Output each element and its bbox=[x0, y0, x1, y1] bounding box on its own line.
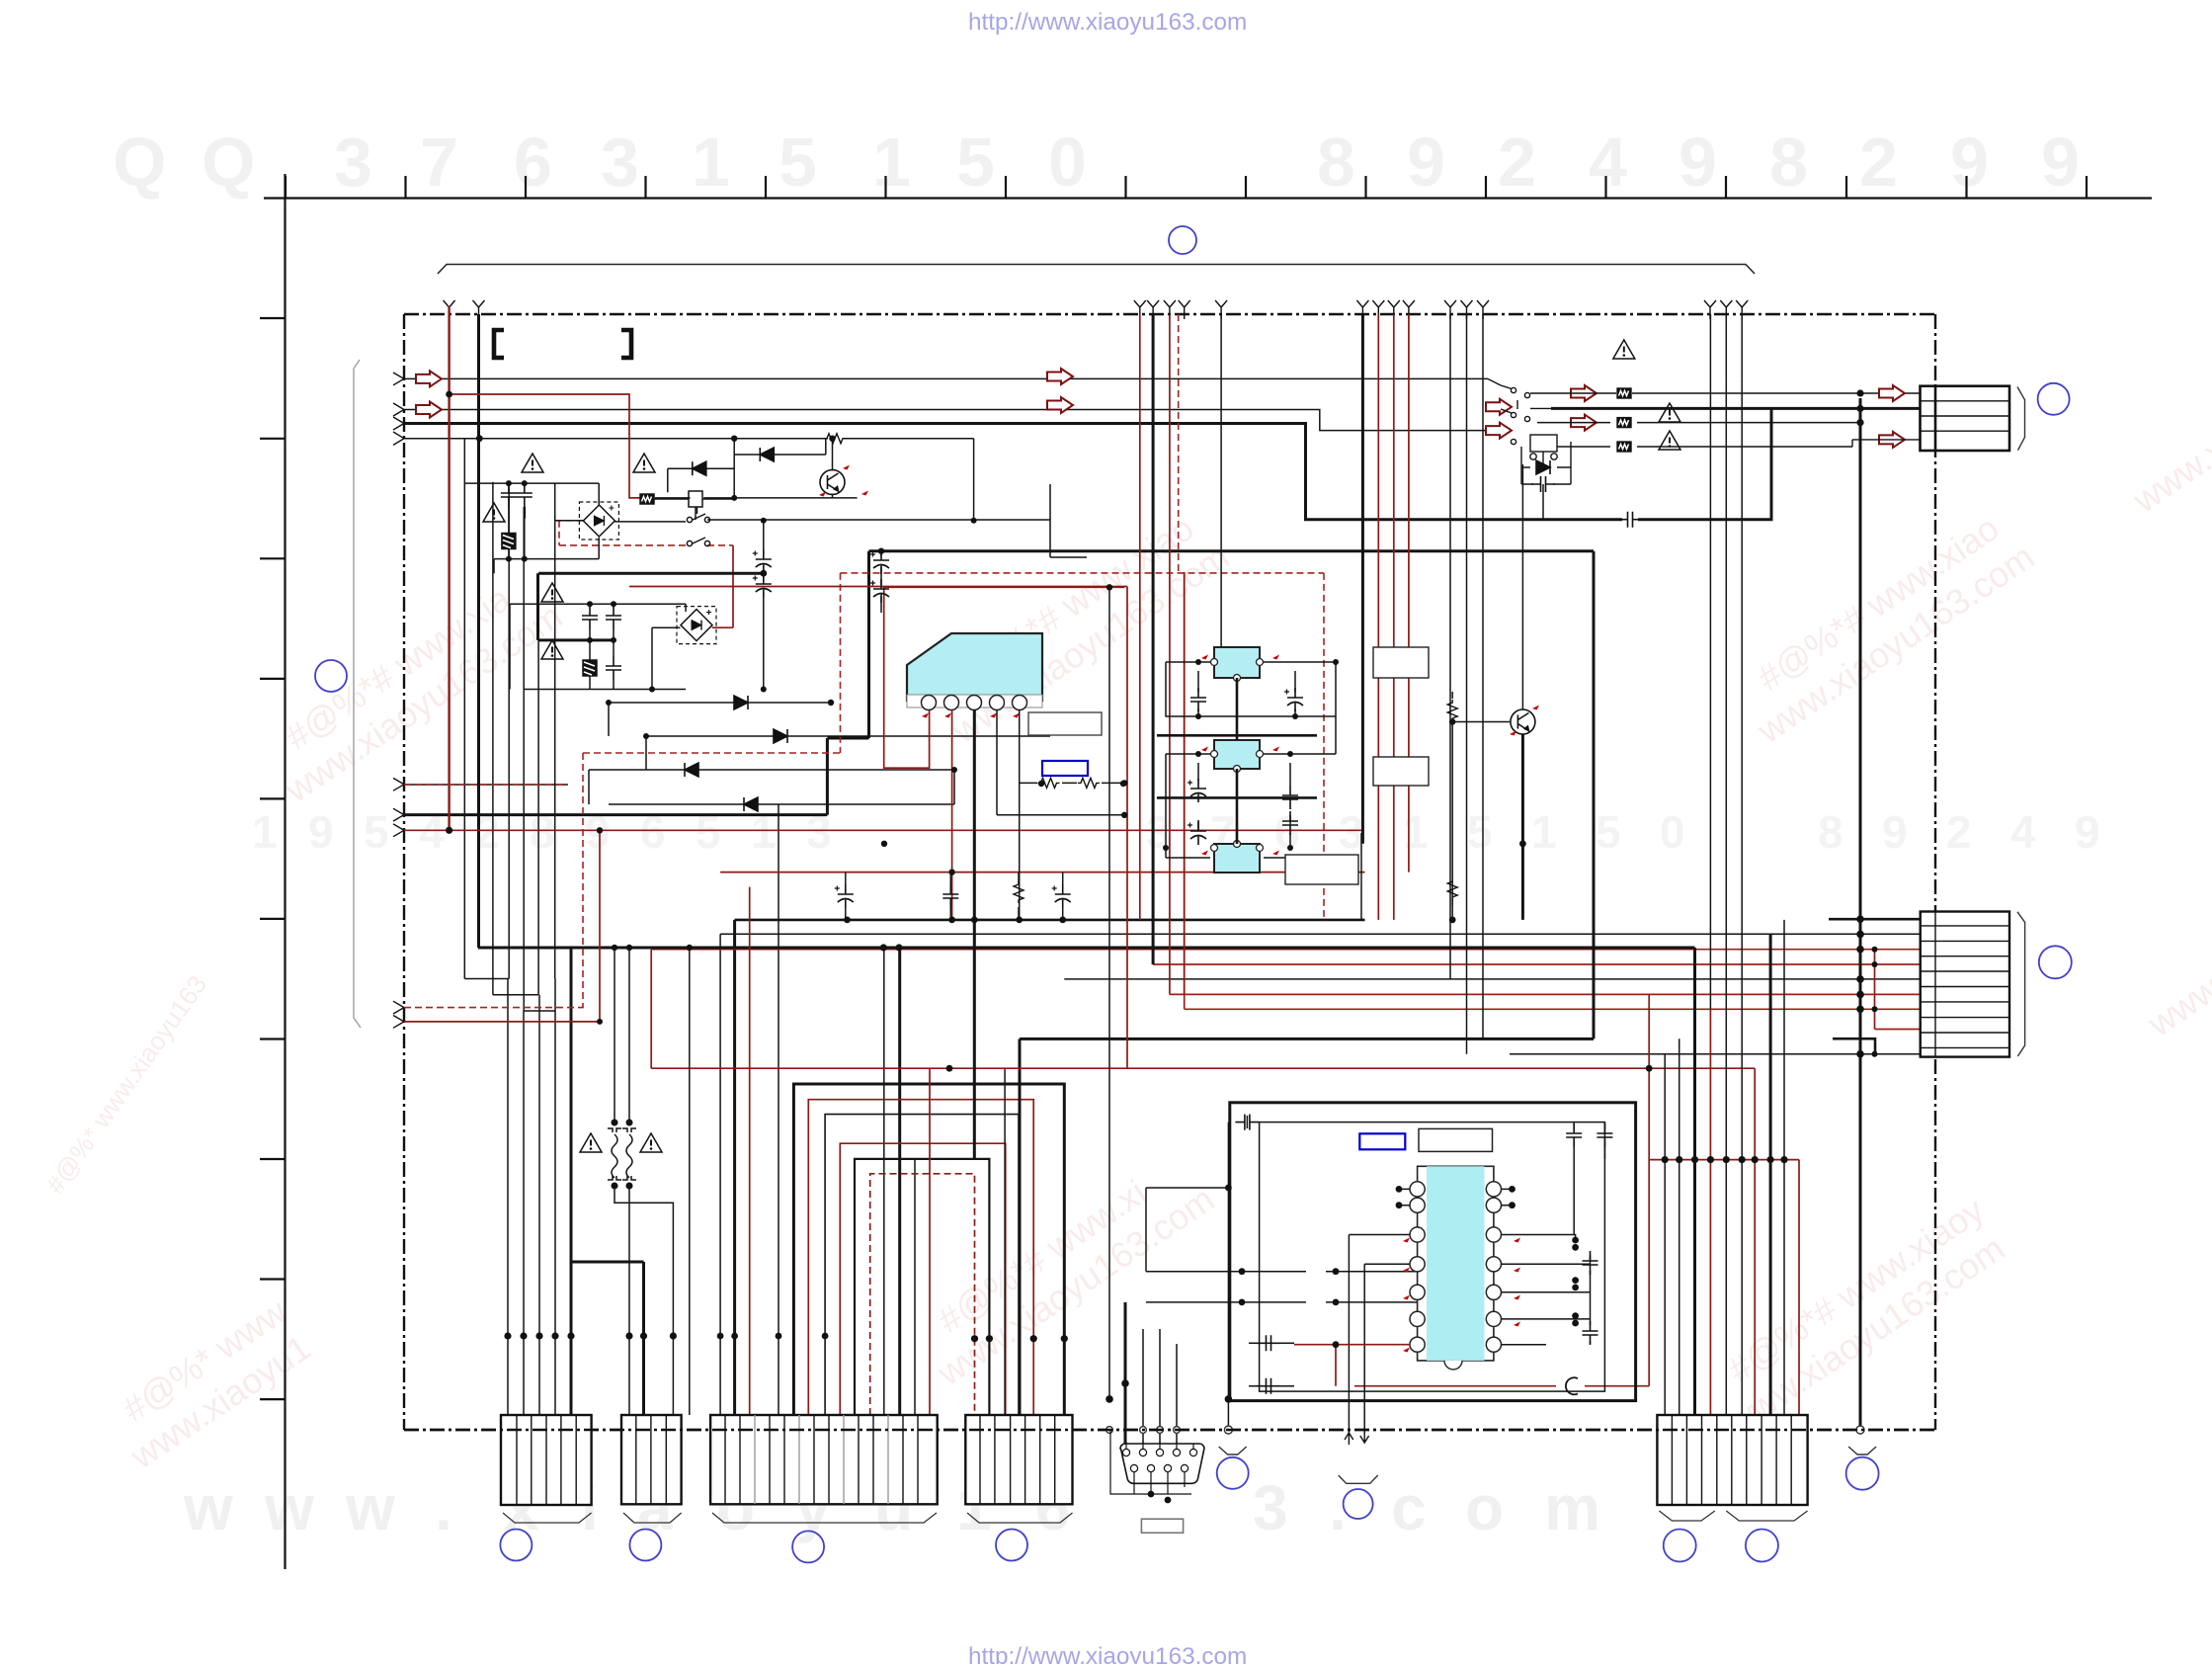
power entry subcircuit top-left bbox=[464, 483, 764, 573]
wire bus: long thin black horizontals top bbox=[404, 378, 1920, 520]
enclosure label box bbox=[1419, 1128, 1493, 1151]
svg-text:3: 3 bbox=[1339, 806, 1364, 858]
svg-text:5: 5 bbox=[1467, 806, 1493, 858]
dash-dot border overlay through connectors bbox=[404, 1429, 1935, 1431]
connector CN-R2 right edge lower bbox=[1921, 912, 2025, 1057]
D-sub label box bbox=[1141, 1519, 1183, 1533]
diode ladder center-left bbox=[589, 696, 1050, 811]
bridge rectifier 2 bbox=[677, 607, 716, 644]
top coverage bracket bbox=[354, 265, 1755, 1029]
wire bus: long red lines bbox=[404, 306, 1875, 1415]
svg-text:0: 0 bbox=[1048, 124, 1087, 201]
red wire inside enclosure bbox=[1294, 1345, 1410, 1386]
arrow markers dark red bbox=[416, 369, 1905, 448]
svg-text:o: o bbox=[1465, 1472, 1504, 1543]
DIP stub wires and dots bbox=[1146, 1115, 1612, 1394]
svg-text:2: 2 bbox=[1859, 124, 1898, 201]
svg-text:9: 9 bbox=[308, 806, 334, 858]
IC1 label box bbox=[1028, 712, 1102, 735]
svg-text:9: 9 bbox=[1407, 124, 1445, 201]
svg-text:1: 1 bbox=[1403, 806, 1429, 858]
wire bbox=[689, 948, 691, 1415]
svg-text:http://www.xiaoyu163.com: http://www.xiaoyu163.com bbox=[968, 9, 1247, 36]
connector CN-E bottom right pair bbox=[1657, 1415, 1807, 1521]
ruler top ticks bbox=[286, 176, 2087, 198]
board outline dash-dot border bbox=[404, 314, 1935, 1430]
ruler horizontal line bbox=[264, 197, 2152, 199]
wire bus: bottom-center enclosure feeders bbox=[1109, 587, 1418, 1444]
bridge rectifier 1 bbox=[579, 502, 618, 540]
wire bus: right side vertical bus to bottom-right connector bbox=[1665, 378, 1860, 1430]
ruler vertical line bbox=[284, 174, 286, 1569]
svg-text:m: m bbox=[1544, 1472, 1600, 1543]
enclosure blue value box bbox=[1359, 1133, 1405, 1149]
open junction circles bbox=[1106, 1426, 1864, 1434]
resistor pair under IC1 bbox=[1020, 778, 1125, 788]
svg-text:2: 2 bbox=[1946, 806, 1972, 858]
diode bbox=[760, 448, 774, 461]
regulator small IC 3 bbox=[1201, 841, 1279, 874]
transistor Q2 bbox=[1511, 709, 1535, 734]
svg-text:3: 3 bbox=[601, 124, 639, 201]
svg-text:2: 2 bbox=[1498, 124, 1536, 201]
power subcircuit 2 bbox=[510, 573, 686, 689]
connector CN-R1 right edge top bbox=[1921, 386, 2025, 451]
svg-text:w: w bbox=[183, 1472, 233, 1543]
up-down arrows below dash-dot bbox=[1345, 1431, 1369, 1445]
switch contacts near top-right bbox=[1488, 378, 1920, 709]
series capacitors x=774 bbox=[753, 521, 889, 690]
transistor Q1 bbox=[820, 470, 845, 495]
connector CN-D bottom bbox=[965, 1415, 1072, 1523]
svg-text:1: 1 bbox=[872, 124, 911, 201]
regulator small IC 1 bbox=[1201, 647, 1279, 682]
svg-text:8: 8 bbox=[1769, 124, 1808, 201]
svg-text:8: 8 bbox=[1818, 806, 1843, 858]
vee marks above blue circles bbox=[1219, 1447, 1876, 1483]
relay and control row top bbox=[640, 484, 1087, 557]
svg-text:1: 1 bbox=[1531, 806, 1557, 858]
svg-text:7: 7 bbox=[420, 124, 458, 201]
regulator wiring bbox=[1157, 662, 1336, 858]
svg-text:Q: Q bbox=[113, 124, 166, 201]
wire bus: thick black top lines bbox=[404, 408, 1920, 814]
regulator area thin border bbox=[1360, 833, 1362, 920]
svg-text:1: 1 bbox=[692, 124, 730, 201]
wire bus: left-center thin verticals to connector C bbox=[720, 804, 915, 1415]
svg-text:3: 3 bbox=[334, 124, 372, 201]
wire bus: staircase mid-left bbox=[464, 948, 643, 1415]
svg-text:w: w bbox=[345, 1472, 395, 1543]
wire bus: top-left board entry chevrons bbox=[393, 373, 404, 1028]
wire bus: red dashed nets bbox=[404, 314, 1324, 1008]
DIP IC body bbox=[1403, 1166, 1520, 1370]
wire bus: center-band horizontals to right connector bbox=[651, 572, 1920, 1054]
IC1 blue value box bbox=[1042, 761, 1088, 776]
capacitor row in thick top line bbox=[1618, 512, 1642, 528]
wire bus: nested U black bbox=[793, 1084, 1064, 1415]
C symbol bbox=[1566, 1377, 1578, 1394]
connector CN-C bottom wide bbox=[710, 1415, 938, 1523]
left tall thin bracket bbox=[354, 360, 361, 1028]
regulator small IC 2 bbox=[1201, 740, 1279, 773]
svg-text:6: 6 bbox=[1274, 806, 1300, 858]
big cyan hybrid IC bbox=[884, 587, 1124, 1159]
ruler left ticks bbox=[260, 318, 285, 1399]
svg-text:6: 6 bbox=[514, 124, 552, 201]
warning triangle bbox=[483, 340, 1680, 1152]
svg-text:5: 5 bbox=[364, 806, 389, 858]
connector CN-B bottom bbox=[621, 1415, 682, 1523]
caps on band lines bbox=[835, 873, 1071, 920]
svg-text:5: 5 bbox=[956, 124, 995, 201]
bracket glyphs bbox=[494, 330, 631, 358]
svg-text:4: 4 bbox=[1589, 124, 1627, 201]
svg-text:9: 9 bbox=[1950, 124, 1989, 201]
svg-text:9: 9 bbox=[1882, 806, 1908, 858]
wire bus: big thick black trunks center bbox=[478, 551, 1695, 1415]
RULER bbox=[260, 174, 2152, 1569]
svg-text:w: w bbox=[264, 1472, 314, 1543]
svg-text:.: . bbox=[435, 1472, 452, 1543]
svg-text:5: 5 bbox=[1596, 806, 1621, 858]
svg-text:9: 9 bbox=[2041, 124, 2080, 201]
blue reference circles bbox=[315, 226, 2072, 1562]
DIP IC enclosure bbox=[1230, 1103, 1636, 1401]
D-sub connector bbox=[1110, 1430, 1204, 1503]
svg-text:8: 8 bbox=[1317, 124, 1355, 201]
transformer isolation symbols bbox=[608, 948, 673, 1415]
svg-text:3: 3 bbox=[1253, 1472, 1288, 1543]
svg-text:1: 1 bbox=[252, 806, 278, 858]
svg-text:4: 4 bbox=[2010, 806, 2036, 858]
wire bus: black verticals top-left bbox=[464, 314, 554, 1011]
resistor bbox=[824, 434, 846, 444]
wire bus: G2 verticals from top border bbox=[629, 314, 1742, 1068]
svg-text:http://www.xiaoyu163.com: http://www.xiaoyu163.com bbox=[968, 1643, 1247, 1664]
wire bus: nested U dark red bbox=[808, 1100, 1033, 1415]
svg-text:0: 0 bbox=[1660, 806, 1685, 858]
svg-text:Q: Q bbox=[202, 124, 255, 201]
svg-text:9: 9 bbox=[2075, 806, 2100, 858]
svg-text:5: 5 bbox=[778, 124, 817, 201]
regulator label boxes bbox=[1373, 647, 1429, 678]
diode bbox=[693, 461, 706, 475]
svg-text:c: c bbox=[1391, 1472, 1427, 1543]
connector CN-A bottom bbox=[501, 1415, 592, 1523]
svg-text:9: 9 bbox=[1679, 124, 1717, 201]
wire bus: Y-tops on top border bbox=[444, 300, 1749, 319]
